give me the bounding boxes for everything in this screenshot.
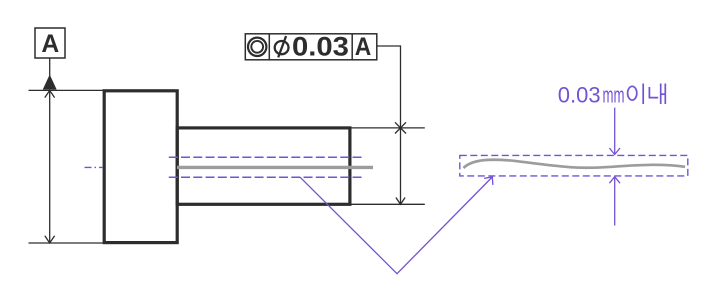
svg-text:0.03: 0.03 <box>292 32 349 61</box>
svg-text:0.03: 0.03 <box>558 82 601 107</box>
svg-text:A: A <box>41 31 59 58</box>
svg-text:mm: mm <box>603 83 625 107</box>
svg-text:A: A <box>355 33 372 61</box>
